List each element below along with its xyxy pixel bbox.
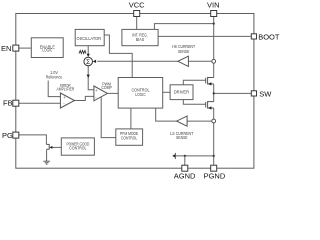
svg-text:DRIVER: DRIVER <box>174 90 189 95</box>
wire driver to LS gate <box>183 100 205 105</box>
node PGND junction <box>213 155 215 157</box>
block PFM MODE CONTROL <box>116 129 143 145</box>
block INT REG BIAS <box>122 29 158 45</box>
pin VIN <box>207 0 220 16</box>
LS current sense tap circle <box>212 119 216 123</box>
wire LS sense circle to PGND rail <box>213 123 215 165</box>
op-amp HS current sense amplifier <box>172 44 195 66</box>
op-amp PWM comparator <box>94 81 112 100</box>
pin PGND <box>204 165 226 180</box>
wire VIN rail upper (VIN pin to HS sense circle) <box>213 17 215 60</box>
svg-text:LOGIC: LOGIC <box>135 92 145 97</box>
wire error amplifier output to PWM comparator <box>75 96 94 100</box>
wire LS current sense to control logic <box>156 108 177 121</box>
pin BOOT <box>251 32 280 41</box>
pin AGND <box>174 165 196 180</box>
wire control logic to driver <box>163 91 170 93</box>
node AGND junction <box>184 155 186 157</box>
wire HS drain to VIN rail <box>213 63 215 77</box>
wire INT REG BIAS to BOOT pin <box>158 35 251 37</box>
wire 1.0V reference to error amplifier <box>48 81 60 97</box>
transistor Q1 PG open-drain FET <box>46 144 52 149</box>
pin PG <box>2 131 19 140</box>
sawtooth ramp symbol <box>79 50 86 53</box>
wire driver to HS gate <box>183 80 205 85</box>
svg-text:CONTROL: CONTROL <box>121 136 138 141</box>
block DRIVER <box>170 85 193 100</box>
block ENABLE LOGIC <box>31 38 63 58</box>
op-amp LS current sense amplifier <box>170 116 193 140</box>
wire summing node to PWM comparator <box>88 66 94 90</box>
wire PG pin to PG transistor drain <box>19 135 47 145</box>
svg-text:Σ: Σ <box>86 59 90 66</box>
arrow summing node to comparator (mid-wire) <box>87 75 90 78</box>
svg-text:FB: FB <box>3 98 13 107</box>
HS current sense tap circle <box>212 59 216 63</box>
wire EN pin to ENABLE LOGIC <box>19 47 32 49</box>
transistor Q3 low-side MOSFET <box>206 101 214 110</box>
wire VCC pin to INT REG BIAS <box>136 17 138 30</box>
transistor Q2 high-side MOSFET <box>206 77 214 86</box>
svg-text:AMPLIFIER: AMPLIFIER <box>57 87 75 92</box>
IC outline U1 <box>16 14 254 169</box>
wire HS current sense output to summing node <box>97 60 178 62</box>
svg-text:BOOT: BOOT <box>258 32 280 41</box>
op-amp error amplifier <box>57 83 75 108</box>
node SW junction <box>213 92 215 94</box>
svg-text:OSCILLATOR: OSCILLATOR <box>77 36 102 41</box>
wire PWM comparator to PFM mode control <box>101 97 116 138</box>
wire VIN branch to INT REG BIAS top <box>154 24 213 30</box>
svg-text:SW: SW <box>259 89 272 98</box>
arrow oscillator into summing node <box>87 54 90 57</box>
wire PWM comparator output to control logic <box>107 92 118 94</box>
wire PG transistor source to ground <box>46 149 48 161</box>
svg-text:LOGIC: LOGIC <box>42 48 52 53</box>
node VIN-branch junction <box>213 23 215 25</box>
wire oscillator output down to summing node <box>87 46 89 57</box>
svg-text:COMP: COMP <box>101 85 111 90</box>
svg-text:+: + <box>63 95 66 100</box>
wire SW node to SW pin <box>214 92 251 94</box>
wire HS sense tap to HS sense amp input <box>188 60 212 62</box>
label 1.0V Reference <box>46 70 63 80</box>
svg-text:+: + <box>95 88 98 93</box>
wire oscillator to control logic top <box>104 35 132 78</box>
svg-text:CONTROL: CONTROL <box>69 145 87 150</box>
arrow HS sense into summing node <box>93 60 96 63</box>
svg-text:VIN: VIN <box>207 0 220 9</box>
wire LS source to LS sense circle <box>213 108 215 119</box>
block CONTROL LOGIC <box>118 78 163 109</box>
pin VCC <box>129 0 145 16</box>
svg-text:AGND: AGND <box>174 172 196 181</box>
svg-text:EN: EN <box>1 44 11 53</box>
AGND bar and arrow symbol <box>172 153 175 159</box>
wire control logic to PFM mode control <box>130 108 132 129</box>
wire SW rail HS source to LS drain <box>213 84 215 102</box>
block OSCILLATOR <box>75 29 104 45</box>
block POWER GOOD CONTROL <box>61 138 94 155</box>
ground symbol (PG transistor source) <box>43 161 50 164</box>
pin SW <box>251 89 272 98</box>
wire AGND drop to AGND pin <box>184 156 186 165</box>
svg-text:SENSE: SENSE <box>176 135 188 140</box>
summing node sigma <box>84 57 93 66</box>
svg-text:SENSE: SENSE <box>178 49 190 54</box>
pin EN <box>1 44 19 53</box>
svg-text:PG: PG <box>2 131 13 140</box>
svg-text:Reference: Reference <box>46 75 63 80</box>
svg-text:BIAS: BIAS <box>136 37 144 42</box>
wire LS sense tap to LS sense amp input <box>187 120 212 122</box>
svg-text:PGND: PGND <box>204 172 226 181</box>
wire AGND internal line <box>175 155 213 157</box>
pin FB <box>3 98 19 107</box>
svg-text:VCC: VCC <box>129 0 145 9</box>
wire PG control gate line <box>52 146 61 148</box>
wire FB pin to error amplifier <box>19 102 61 104</box>
